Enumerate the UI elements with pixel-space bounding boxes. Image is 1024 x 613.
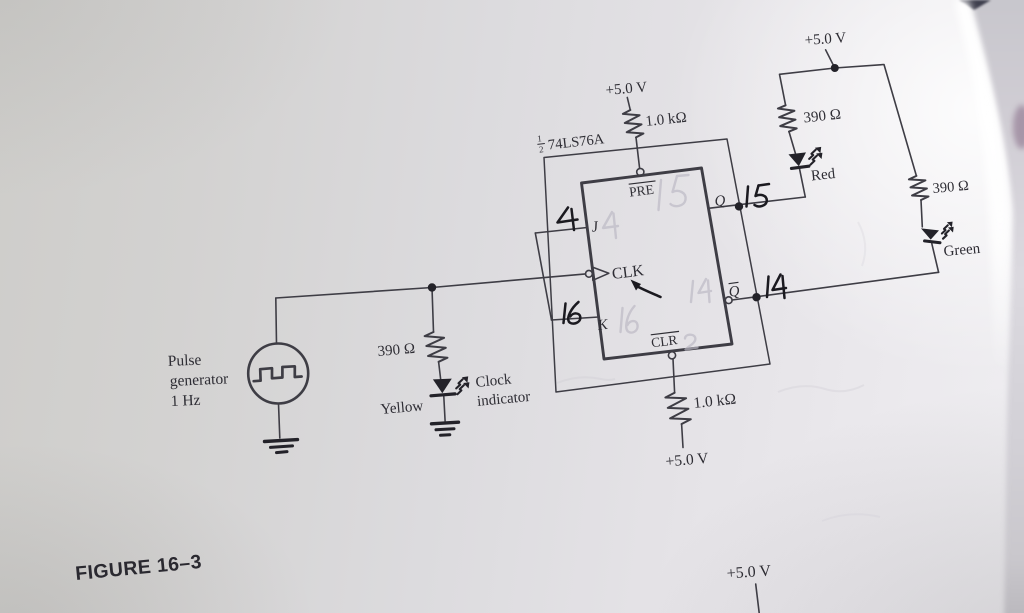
svg-text:Clock: Clock bbox=[475, 372, 513, 391]
LED green triangle bbox=[921, 228, 939, 239]
svg-text:PRE: PRE bbox=[628, 182, 654, 200]
IC outline half 74LS76A bbox=[544, 139, 770, 392]
wire Q up to red LED bbox=[800, 169, 806, 197]
purple blur object beyond page edge bbox=[1013, 105, 1024, 149]
wire K input bbox=[552, 317, 599, 320]
label PRE bbox=[628, 181, 657, 200]
pencil 2 at CLR bbox=[685, 335, 698, 350]
svg-text:Green: Green bbox=[943, 241, 981, 260]
wire pulse gen bottom to ground bbox=[279, 404, 280, 438]
LED red cathode bar bbox=[792, 166, 809, 168]
svg-text:74LS76A: 74LS76A bbox=[547, 131, 605, 153]
handwritten pin 15 (Q) bbox=[747, 187, 749, 207]
ground (yellow LED) bbox=[432, 422, 459, 424]
handwritten pin 4 (J) bbox=[558, 208, 578, 223]
dark wedge top right corner bbox=[959, 0, 991, 10]
wire pulse gen to CLK node bbox=[276, 288, 432, 299]
svg-text:Yellow: Yellow bbox=[380, 398, 424, 418]
wire CLR down bbox=[673, 359, 675, 393]
pencil 16 at K bbox=[621, 308, 623, 332]
wire +5V label stem bbox=[826, 50, 835, 68]
square wave symbol bbox=[254, 366, 302, 381]
pencil 14 inside box bbox=[691, 281, 693, 302]
svg-text:1.0 kΩ: 1.0 kΩ bbox=[693, 391, 737, 412]
svg-text:Q: Q bbox=[728, 283, 741, 300]
junction node at pulse generator bbox=[428, 283, 436, 291]
resistor 390 ohm (green branch) bbox=[909, 176, 929, 200]
wire Q output bbox=[708, 197, 805, 208]
bright page edge highlight bbox=[954, 0, 1011, 480]
svg-text:1.0 kΩ: 1.0 kΩ bbox=[645, 110, 688, 130]
svg-text:J: J bbox=[590, 219, 600, 236]
CLR bubble bbox=[668, 352, 675, 359]
svg-text:indicator: indicator bbox=[476, 389, 531, 410]
wire green LED down bbox=[932, 244, 939, 273]
svg-text:Red: Red bbox=[810, 166, 836, 184]
PRE bubble bbox=[637, 168, 644, 175]
wire resistor to yellow LED bbox=[439, 362, 441, 379]
page right edge: area beyond the book page bbox=[967, 0, 1024, 613]
resistor 1.0k (PRE pull-up) bbox=[623, 110, 644, 137]
wire pulse gen top bbox=[275, 298, 278, 344]
faint print-through / erased pencil marks bbox=[557, 222, 880, 521]
pencil 4 at J bbox=[603, 212, 618, 228]
CLK bubble bbox=[586, 270, 593, 277]
CLK edge triangle bbox=[593, 267, 609, 280]
svg-text:+5.0 V: +5.0 V bbox=[804, 30, 847, 49]
svg-text:Q: Q bbox=[714, 193, 727, 210]
wire yellow LED to ground bbox=[444, 397, 445, 422]
svg-text:390 Ω: 390 Ω bbox=[803, 107, 842, 127]
wire node down to 390 resistor bbox=[432, 288, 434, 333]
wire J-K tie bbox=[535, 233, 551, 320]
wire +5V node to red resistor bbox=[780, 68, 835, 105]
pencil 15 inside box bbox=[659, 180, 662, 210]
wire red LED up to resistor bbox=[789, 132, 795, 154]
svg-text:+5.0 V: +5.0 V bbox=[665, 450, 710, 471]
ground (pulse generator) bbox=[265, 440, 298, 442]
zap arrows green LED bbox=[942, 225, 948, 233]
zap arrows yellow LED bbox=[456, 379, 463, 388]
resistor 390 ohm (yellow branch) bbox=[425, 332, 448, 362]
svg-text:390 Ω: 390 Ω bbox=[377, 341, 416, 360]
svg-text:+5.0 V: +5.0 V bbox=[726, 562, 772, 582]
wire CLR resistor to +5V label bbox=[682, 424, 683, 448]
LED green cathode bar bbox=[925, 241, 941, 243]
handwritten arrow at CLK bbox=[637, 286, 661, 297]
svg-text:FIGURE 16–3: FIGURE 16–3 bbox=[74, 551, 202, 585]
wire node to CLK input bbox=[432, 274, 586, 288]
wire +5V node to green resistor bbox=[835, 65, 917, 176]
LED yellow cathode bar bbox=[431, 394, 455, 396]
junction node Q bbox=[735, 202, 743, 210]
junction node Q-bar bbox=[752, 293, 760, 301]
Q-bar bubble bbox=[725, 297, 732, 304]
zap arrows red LED bbox=[809, 150, 816, 159]
handwritten pin 16 (K) bbox=[564, 304, 566, 324]
svg-text:2: 2 bbox=[538, 144, 544, 154]
label CLR bbox=[650, 331, 681, 350]
wire Q-bar to green branch bbox=[732, 272, 939, 300]
flip-flop box U1 bbox=[582, 168, 733, 359]
svg-text:390 Ω: 390 Ω bbox=[932, 178, 970, 197]
svg-text:generator: generator bbox=[169, 370, 229, 390]
svg-text:1: 1 bbox=[537, 133, 543, 143]
LED red triangle bbox=[789, 152, 807, 166]
label Q-bar bbox=[728, 282, 741, 300]
svg-text:1 Hz: 1 Hz bbox=[170, 392, 201, 410]
handwritten pin 14 (Q-bar) bbox=[767, 277, 769, 298]
wire resistor to PRE pin bbox=[636, 137, 640, 168]
resistor 390 ohm (red branch) bbox=[778, 105, 797, 131]
wire +5V bottom stem bbox=[756, 584, 760, 613]
junction node +5V top right bbox=[831, 64, 839, 72]
handwritten arrow head bbox=[631, 280, 642, 291]
svg-text:+5.0 V: +5.0 V bbox=[605, 79, 648, 99]
pulse generator circle bbox=[248, 344, 308, 404]
label 1/2 74LS76A bbox=[536, 126, 605, 154]
svg-text:K: K bbox=[596, 317, 610, 334]
wire +5V top-middle down bbox=[627, 98, 630, 111]
wire J input bbox=[535, 228, 587, 234]
resistor 1.0k (CLR pull-up) bbox=[665, 393, 690, 424]
svg-text:CLK: CLK bbox=[611, 262, 645, 283]
LED yellow triangle bbox=[433, 379, 452, 394]
wire green resistor to LED bbox=[921, 200, 922, 227]
svg-text:Pulse: Pulse bbox=[167, 352, 201, 370]
